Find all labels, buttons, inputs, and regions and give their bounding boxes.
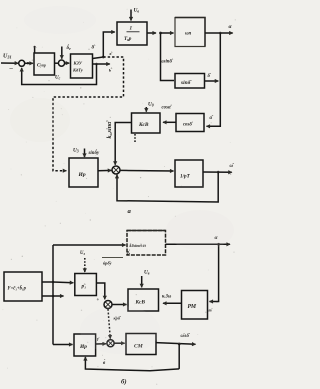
node stub above U1 [34,48,36,54]
svg-text:соsδ̂: соsδ̂ [183,123,194,128]
svg-text:U3: U3 [80,251,85,256]
wire KsV1 out down to S3 [115,123,131,165]
svg-text:ω̈±δ̂: ω̈±δ̂ [181,334,191,339]
node small label b [109,69,113,74]
svg-text:F=c̄₁+b̄₁p: F=c̄₁+b̄₁p [8,286,27,292]
wire bus top to TB [53,244,126,246]
svg-text:α̂: α̂ [210,116,215,121]
svg-text:КдТу: КдТу [72,68,84,73]
node Ud label [67,45,72,51]
wire J6 down into RM [210,244,219,301]
svg-text:k̄Зsinα̂±c̄t: k̄Зsinα̂±c̄t [129,243,146,248]
block SM [126,334,156,355]
wire SM out [156,343,196,345]
node caption a [128,208,132,215]
node small delta label [208,74,212,79]
svg-text:Иp: Иp [78,172,86,178]
wire L1 out to S5 [96,343,106,345]
block KsV2 [128,289,159,311]
svg-text:sinδ́у: sinδ́у [88,150,100,156]
wire J3 to block V2 [161,32,174,34]
node v label [103,360,106,366]
block cos [176,114,204,132]
node U3 label bottom [80,251,85,256]
node cos-alpha label [162,106,173,111]
svg-text:Ь́: Ь́ [126,251,131,257]
svg-text:–: – [9,65,14,72]
svg-text:а: а [128,208,132,215]
svg-text:ωп: ωп [185,32,192,37]
node omega-hat label [230,164,235,169]
svg-text:1: 1 [130,26,133,32]
wire cos to KsV1 [163,121,176,123]
node alpha-hat label [210,116,215,121]
scan noise (decorative) [3,6,236,385]
svg-text:к.Зω: к.Зω [162,295,172,300]
node caption b [121,379,127,386]
wire S1 to U1 [25,62,33,64]
wire S5 to SM [114,342,125,344]
svg-text:КЗУ: КЗУ [73,61,83,66]
node b label [126,251,131,257]
wire dashed arrow into M1 top [84,258,86,272]
svg-text:КсВ: КсВ [135,300,146,306]
wire bus to M1 [53,281,73,284]
node overlined label [102,257,123,259]
node p-delta tick label [97,336,100,341]
node U0 label [148,102,154,108]
block V1 integrator 1/Tp [117,22,147,45]
wire bus stub arrow [53,295,64,297]
wire input to summer S1 [1,62,18,64]
svg-text:ќрδ̂у: ќрδ̂у [103,261,112,266]
wire U2 top output to integrator [93,57,104,59]
svg-text:р̂₁: р̂₁ [81,284,87,290]
svg-text:Твр: Твр [124,36,132,42]
node kp-delta label [114,316,122,321]
svg-text:sinδ̂: sinδ̂ [180,80,192,86]
svg-text:Uc: Uc [55,76,61,81]
summing junction S1 [19,60,25,66]
wire Uv arrow into V1 top [130,10,132,21]
block V2 (light box) [175,18,205,47]
block U1 Supr [34,53,55,75]
svg-text:kωsinα̂: kωsinα̂ [107,120,113,139]
node junction dot J3 [159,32,162,35]
node junction dot J7 [178,343,181,346]
node k3-omega label [162,295,172,300]
svg-text:cosα̂: cosα̂ [162,106,173,111]
wire bus bottom to L1 [53,344,73,346]
wire S2 to U2 [65,62,70,64]
svg-text:δ̂: δ̂ [208,74,212,79]
wire Up out to S3 [98,169,111,171]
wire U2 mid output stub [93,63,110,65]
svg-text:в́: в́ [103,360,106,366]
wire dashed stub below KsV1 [134,134,136,142]
block U2 KZU [71,54,93,78]
node junction dot [27,62,29,64]
node junction dot J1 [102,56,105,59]
wire U1 to S2 [55,62,59,64]
svg-text:δ̂: δ̂ [92,45,97,51]
node omega-delta label [181,334,191,339]
svg-text:δ́e: δ́e [67,45,72,51]
node tick label below RM input [209,308,213,313]
wire RM to KsV2 [163,302,182,304]
svg-text:U0: U0 [148,102,154,108]
wire bottom loop to L1 [85,357,179,371]
node U3 label [73,148,79,154]
node alpha label bottom [215,235,219,241]
node Uv label bottom [144,270,150,276]
node Uc label [55,76,61,81]
svg-text:+: + [97,298,100,303]
wire vertical bus [52,245,54,345]
wire M1 out to S4 [96,283,105,299]
block servo 1/pT [175,160,203,187]
svg-text:Uв: Uв [134,8,140,14]
svg-text:КсВ: КсВ [138,122,149,128]
node k-omega-sin rotated label [107,120,113,139]
svg-text:α: α [229,24,233,30]
wire TB out to alpha [166,243,231,245]
wire J4 down to cos block [207,33,221,126]
block RM [182,291,208,320]
wire S3 to servo [120,169,174,172]
node plus tick [97,298,100,303]
wire V1 out to J3 [147,32,156,34]
svg-text:т̈: т̈ [209,308,213,313]
svg-text:Cупр: Cупр [37,64,46,69]
block M1 [75,274,97,296]
node bus dot B2 [52,295,55,298]
wire F to bus lower [42,295,53,297]
wire sin out to alpha line [205,80,219,82]
svg-text:Иp: Иp [79,344,87,350]
summing junction S3 [112,166,120,174]
node minus sign [9,65,14,72]
svg-text:ω̂: ω̂ [230,164,235,169]
block sin [175,74,205,89]
wire V2 out to alpha [205,32,233,34]
node junction dot J5 [217,171,220,174]
wire outer loop J5 to S3 [117,172,218,202]
wire U0 arrow into KsV1 top [145,107,147,112]
wire J3 down to sin block [161,33,175,81]
block L1 [74,334,96,356]
wire Uv arrow into KsV2 top [141,276,143,287]
svg-text:1/рТ: 1/рТ [180,174,191,180]
svg-text:U31: U31 [3,54,12,60]
svg-text:ь̂: ь̂ [109,69,113,74]
svg-text:Uв: Uв [144,270,150,276]
block KsV1 [132,113,161,133]
wire U3 arrow into Up top [84,149,86,158]
wire dashed drop to S5 [108,309,110,339]
svg-text:U3: U3 [73,148,79,154]
wire servo out [203,171,232,173]
node junction dot J2 [95,63,98,66]
block Up [69,158,98,187]
wire dashed linkage J1 to Up [53,57,124,171]
wire RM bottom drop [178,344,180,369]
node bus dot B1 [52,281,55,284]
summing junction S5 [107,340,114,347]
summing junction S4 [104,301,112,309]
wire inner feedback J2 to S1 [22,64,97,85]
node alpha label [229,24,233,30]
svg-text:в̂: в̂ [110,51,113,56]
node junction dot J6 [217,243,220,246]
node sin-delta-y label [88,150,100,156]
node U31 input label [3,54,12,60]
wire S4 to KsV2 [112,304,127,306]
wire F to bus upper [42,281,53,283]
summing junction S2 [58,60,64,66]
node delta-hat label [92,45,97,51]
node junction dot J4 [219,32,222,35]
svg-text:РМ: РМ [188,304,197,310]
block TB k-sin-cos [127,231,166,256]
node Uv label [134,8,140,14]
svg-text:б): б) [121,379,127,386]
wire J1 up to block V1 [103,32,115,57]
node omega-sin label [160,60,174,65]
node tick above J1 [110,51,113,56]
block F input filter [4,272,42,301]
wire Ud arrow into S2 [61,47,63,59]
svg-text:ωsinδ̂: ωsinδ̂ [160,60,174,65]
